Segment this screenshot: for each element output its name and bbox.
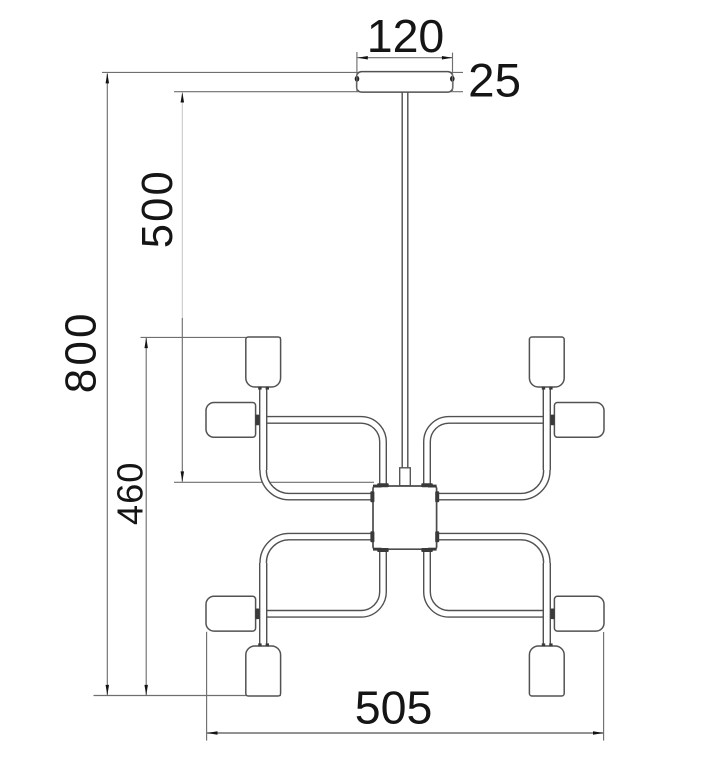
ceiling canopy (357, 72, 453, 93)
lamp head lower-right horizontal (554, 596, 604, 631)
central hub box (373, 486, 437, 549)
arm lower-left outer (riser to upright head) (263, 537, 374, 642)
stem (402, 91, 409, 470)
arrow 120 right (442, 56, 453, 60)
hub sockets bottom (377, 548, 389, 552)
extension line: hub top level for 500 bottom (174, 481, 374, 483)
riser stem lower-right (543, 563, 551, 647)
stem nubs lower-right head (542, 643, 545, 646)
arm upper-left outer (riser to upright head) (263, 391, 374, 497)
lamp head upper-right upright (529, 337, 564, 387)
arrow 505 left (207, 731, 218, 735)
svg-text:25: 25 (468, 55, 521, 108)
arrow 460 top (144, 338, 148, 349)
arm lower-right outer (riser to upright head) (436, 537, 547, 642)
stem nubs upper-right head (542, 387, 545, 390)
dimension arrows (106, 56, 604, 735)
extension line: canopy bottom level (500 top / 25 bottom) (174, 91, 463, 93)
riser stem upper-left (259, 386, 267, 470)
riser stem upper-right (543, 386, 551, 470)
arm lower-right inner (to horizontal head) (427, 548, 555, 614)
stem connector above hub (400, 468, 411, 486)
svg-text:460: 460 (110, 462, 151, 526)
lamp head lower-left horizontal (206, 596, 256, 631)
canopy left blob (355, 76, 360, 82)
stem nubs upper-left head (258, 387, 261, 390)
arm upper-right outer (riser to upright head) (436, 391, 547, 497)
arrow 500 top (181, 92, 185, 103)
dimension line 800 (106, 74, 108, 696)
arrow 500 bottom (181, 471, 185, 482)
lamp head lower-left upright (246, 646, 281, 696)
lamp head upper-left horizontal (206, 403, 256, 438)
socket lower-right horizontal head (550, 609, 554, 620)
120 dimension extension lines (207, 52, 604, 741)
arrow 460 bottom (144, 685, 148, 696)
arm lower-left inner (to horizontal head) (256, 548, 384, 614)
dimension line 500 upper part (lighter) (181, 92, 183, 318)
arrow 800 bottom (106, 685, 110, 696)
lamp head upper-right horizontal (554, 403, 604, 438)
arm upper-right inner (to horizontal head) (427, 420, 555, 487)
svg-text:500: 500 (134, 169, 182, 248)
hub sockets right (435, 491, 439, 502)
arrow 505 right (593, 731, 604, 735)
lamp head lower-right upright (529, 646, 564, 696)
dimension line 460 (145, 338, 147, 695)
arrow 800 top (106, 73, 110, 84)
svg-text:800: 800 (56, 310, 105, 393)
hub sockets top (370, 483, 439, 552)
lamp head upper-left upright (246, 337, 281, 387)
extension line: fixture bottom shared by 800 and 460 (94, 695, 282, 697)
socket upper-right horizontal head (550, 415, 554, 426)
dimension line 120 (357, 57, 453, 59)
svg-text:505: 505 (355, 682, 433, 734)
svg-text:120: 120 (367, 10, 445, 62)
canopy right blob (450, 76, 455, 82)
socket lower-left horizontal head (255, 609, 259, 620)
arm upper-left inner (to horizontal head) (256, 420, 384, 487)
arrow 120 left (357, 56, 368, 60)
505 extension lines (206, 632, 208, 741)
hub corner dashes (373, 485, 382, 488)
dimension line 505 (207, 732, 604, 734)
head connectors (dark sockets) (255, 387, 554, 647)
hub sockets left (370, 491, 374, 502)
extension line: head top for 460 (141, 336, 282, 338)
riser stem lower-left (259, 563, 267, 647)
stem nubs lower-left head (258, 643, 261, 646)
dimension line 500 lower part (181, 318, 183, 482)
dimension extension line: canopy top to 800 line (94, 72, 464, 695)
socket upper-left horizontal head (255, 415, 259, 426)
